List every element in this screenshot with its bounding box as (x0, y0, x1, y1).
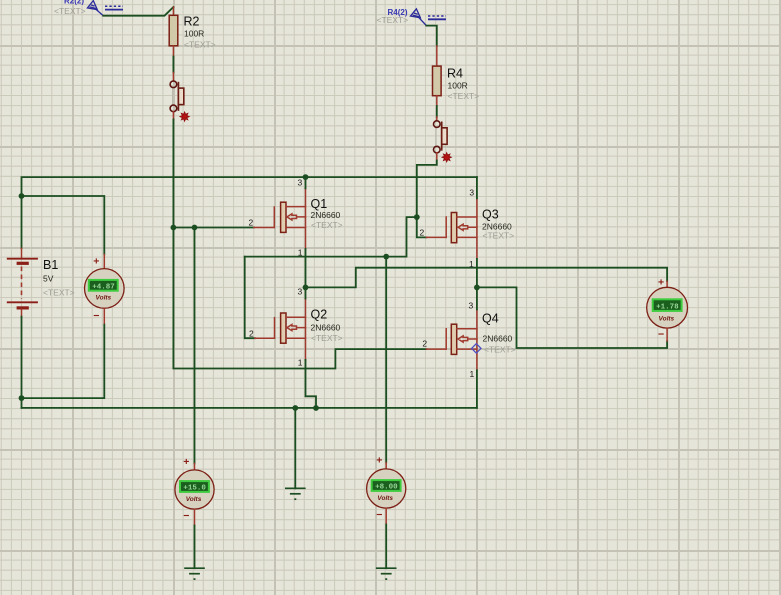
battery B1 plate short top (17, 262, 29, 265)
battery B1 dashed middle (21, 267, 23, 300)
svg-text:+: + (183, 456, 189, 468)
svg-text:B1: B1 (43, 258, 58, 272)
voltmeter VM3 plus pin (385, 463, 387, 470)
transistor Q2 drain lead (286, 299, 306, 318)
transistor Q4 gate line (445, 329, 447, 349)
transistor Q4 pin bus (476, 329, 478, 349)
ground symbol VM2 (184, 568, 205, 579)
wire Q1 gate from node (173, 227, 253, 229)
junction bottom rail / ground stub (292, 405, 298, 411)
wire probe R4(2) to R4 (426, 26, 437, 46)
svg-text:2N6660: 2N6660 (311, 323, 341, 333)
junction node R4/Q3 gate (414, 214, 420, 220)
voltmeter VM4 body (647, 287, 688, 328)
svg-text:<TEXT>: <TEXT> (377, 15, 409, 25)
probe R2(2) solid marker (105, 9, 123, 11)
wire voltmeter VM1 plus branch (22, 196, 105, 255)
wire battery minus down to bottom rail (21, 317, 23, 408)
voltmeter VM3 body (367, 469, 406, 508)
voltmeter VM1 plus pin (103, 255, 105, 269)
svg-text:2: 2 (249, 218, 254, 228)
voltmeter VM2 plus pin (194, 464, 196, 471)
battery B1 top pin (21, 248, 23, 258)
voltage probe R4(2) symbol (411, 9, 427, 26)
wire probe R2(2) to R2 top (103, 7, 173, 16)
svg-text:1: 1 (298, 358, 303, 368)
svg-text:Q2: Q2 (311, 308, 328, 322)
transistor Q3 drain lead (457, 198, 477, 217)
switch SW1 toggle star (180, 112, 189, 121)
resistor R2 top pin (172, 7, 174, 15)
probe R4(2) dashed marker (428, 15, 446, 17)
svg-text:3: 3 (298, 178, 303, 188)
voltmeter VM2 LCD (180, 481, 209, 492)
voltage probe R2(2) symbol (87, 1, 103, 16)
battery B1 plate long bottom (7, 301, 38, 303)
resistor R2 bottom pin (172, 46, 174, 57)
wire Q1 source down to node B (305, 249, 307, 288)
origin marker diamond (472, 344, 481, 353)
svg-text:2N6660: 2N6660 (483, 334, 513, 344)
wire VM2 minus to ground (194, 526, 196, 569)
transistor Q1 pin bus (305, 207, 307, 228)
transistor Q2 gate line (274, 318, 276, 339)
voltmeter VM4 minus pin (666, 328, 668, 341)
wire SW2 down to Q3 gate node (417, 161, 437, 238)
svg-text:R2(2): R2(2) (64, 0, 84, 6)
transistor Q1 channel bar (281, 202, 286, 232)
ground symbol middle (285, 488, 306, 499)
wire cross A (245, 217, 417, 257)
svg-text:Q1: Q1 (311, 197, 328, 211)
svg-text:Q3: Q3 (482, 208, 499, 222)
switch SW2 gray path (435, 127, 437, 145)
svg-text:Volts: Volts (659, 316, 675, 323)
voltmeter VM4 plus pin (666, 281, 668, 287)
switch SW2 bottom pin (436, 153, 438, 161)
svg-text:+4.87: +4.87 (92, 283, 115, 291)
svg-text:Volts: Volts (96, 295, 112, 302)
junction node R2/Q1 gate (171, 225, 177, 231)
wire Q4 source to bottom rail (476, 370, 478, 408)
ground symbol VM3 (376, 568, 397, 579)
switch SW2 actuator bar (441, 122, 443, 151)
voltmeter VM3 LCD (372, 480, 401, 491)
wire Q2 drain to node B (305, 287, 307, 298)
svg-text:100R: 100R (184, 29, 204, 39)
svg-text:<TEXT>: <TEXT> (484, 345, 516, 355)
svg-text:+: + (376, 455, 382, 467)
battery B1 plate short bottom (17, 306, 29, 309)
wire bottom rail (22, 407, 477, 409)
junction node B (303, 285, 309, 291)
svg-text:<TEXT>: <TEXT> (311, 333, 343, 343)
wire SW1 down to Q1 gate node (172, 120, 174, 228)
svg-text:1: 1 (470, 369, 475, 379)
battery B1 bottom pin (21, 310, 23, 317)
junction top rail / Q1 drain (303, 174, 309, 180)
transistor Q2 pin bus (305, 317, 307, 338)
svg-text:−: − (93, 310, 99, 322)
svg-text:3: 3 (298, 287, 303, 297)
junction Q1 gate / meter VM2 (192, 225, 198, 231)
voltmeter VM2 body (175, 470, 214, 509)
svg-text:5V: 5V (43, 274, 54, 284)
svg-text:<TEXT>: <TEXT> (43, 288, 75, 298)
svg-text:<TEXT>: <TEXT> (483, 231, 515, 241)
wire R2 to switch (172, 57, 174, 73)
transistor Q4 gate lead (426, 348, 446, 350)
wire top rail VDD (22, 177, 477, 248)
transistor Q1 drain lead (286, 188, 306, 206)
transistor Q4 source lead (457, 349, 477, 370)
svg-text:3: 3 (469, 188, 474, 198)
transistor Q4 substrate arrow (458, 336, 477, 342)
wire node B to VM4 plus (306, 268, 668, 288)
svg-text:+8.00: +8.00 (375, 484, 398, 492)
transistor Q3 substrate arrow (458, 224, 477, 230)
svg-text:−: − (183, 510, 189, 522)
wire voltmeter VM1 minus to battery minus (22, 325, 105, 398)
wire Q3 drain to rail (476, 177, 478, 198)
svg-text:R2: R2 (184, 15, 200, 29)
battery B1 plate long top (7, 258, 38, 260)
transistor Q4 channel bar (451, 324, 456, 354)
resistor R2 body (169, 15, 178, 46)
junction battery/voltmeter top (19, 193, 25, 199)
switch SW1 actuator box (178, 88, 183, 105)
switch SW2 top terminal (434, 121, 441, 128)
junction node C (474, 285, 480, 291)
junction cross A / meter VM3 (383, 254, 389, 260)
transistor Q2 substrate arrow (287, 325, 306, 331)
svg-text:+: + (658, 277, 664, 289)
transistor Q2 gate lead (255, 337, 275, 339)
resistor R4 top pin (436, 46, 438, 66)
svg-text:−: − (658, 329, 664, 341)
switch SW2 actuator box (442, 128, 447, 145)
svg-text:<TEXT>: <TEXT> (184, 40, 216, 50)
probe R2(2) dashed marker (105, 5, 123, 7)
wire Q1 drain to rail (305, 177, 307, 188)
switch SW2 bottom terminal (434, 146, 441, 153)
transistor Q3 gate lead (426, 236, 446, 238)
svg-text:+15.0: +15.0 (183, 485, 206, 493)
wire VM2 from Q1 gate node (194, 228, 196, 464)
transistor Q1 gate lead (254, 227, 274, 229)
wire VM3 minus to ground (385, 525, 387, 569)
svg-text:<TEXT>: <TEXT> (54, 6, 86, 16)
transistor Q2 channel bar (281, 313, 286, 343)
svg-text:2N6660: 2N6660 (311, 210, 341, 220)
svg-text:<TEXT>: <TEXT> (311, 220, 343, 230)
wire node C to VM4 minus (477, 287, 667, 348)
wire VM3 from cross wire A (385, 257, 387, 463)
voltmeter VM4 LCD (653, 299, 682, 311)
switch SW1 actuator bar (177, 82, 179, 111)
switch SW1 gray path (172, 88, 174, 106)
wire Q4 drain to node C (476, 287, 478, 309)
switch SW1 top terminal (170, 81, 177, 88)
wire Q2 gate riser from cross wire A (245, 257, 255, 339)
voltmeter VM1 minus pin (103, 308, 105, 325)
switch SW1 bottom terminal (170, 105, 177, 112)
svg-text:2: 2 (422, 339, 427, 349)
junction bottom rail / Q2 source (313, 405, 319, 411)
wire ground stub (294, 408, 296, 488)
resistor R4 bottom pin (436, 96, 438, 106)
svg-text:Volts: Volts (377, 495, 393, 502)
transistor Q1 substrate arrow (287, 214, 306, 220)
svg-text:1: 1 (469, 259, 474, 269)
svg-text:3: 3 (469, 300, 474, 310)
junction battery/voltmeter bottom (19, 395, 25, 401)
transistor Q2 source lead (286, 338, 306, 360)
switch SW2 toggle star (442, 153, 451, 162)
svg-text:2: 2 (249, 329, 254, 339)
transistor Q1 gate line (273, 207, 275, 228)
wire Q2 source to bottom rail (306, 360, 317, 408)
svg-text:2: 2 (420, 228, 425, 238)
svg-text:R4: R4 (447, 67, 463, 81)
probe R4(2) solid marker (428, 18, 446, 20)
voltmeter VM1 LCD (89, 280, 118, 291)
switch SW1 bottom pin (172, 112, 174, 120)
svg-text:+1.78: +1.78 (656, 304, 679, 312)
svg-text:Q4: Q4 (482, 312, 499, 326)
svg-text:100R: 100R (448, 81, 468, 91)
wire R4 to switch SW2 (436, 106, 438, 117)
voltmeter VM2 minus pin (194, 509, 196, 525)
transistor Q4 drain lead (457, 309, 477, 328)
voltmeter VM3 minus pin (385, 508, 387, 524)
transistor Q1 source lead (286, 228, 306, 249)
voltmeter VM1 body (85, 269, 125, 309)
resistor R4 body (433, 66, 442, 96)
transistor Q3 gate line (445, 217, 447, 237)
transistor Q3 pin bus (476, 217, 478, 237)
svg-text:Volts: Volts (186, 496, 202, 503)
svg-text:+: + (93, 255, 99, 267)
svg-text:<TEXT>: <TEXT> (448, 91, 480, 101)
wire Q1 gate node down and across to Q4 gate (173, 228, 426, 369)
transistor Q3 source lead (457, 237, 477, 259)
svg-text:−: − (376, 509, 382, 521)
wire Q3 source to node C (476, 259, 478, 288)
transistor Q3 channel bar (451, 213, 456, 243)
